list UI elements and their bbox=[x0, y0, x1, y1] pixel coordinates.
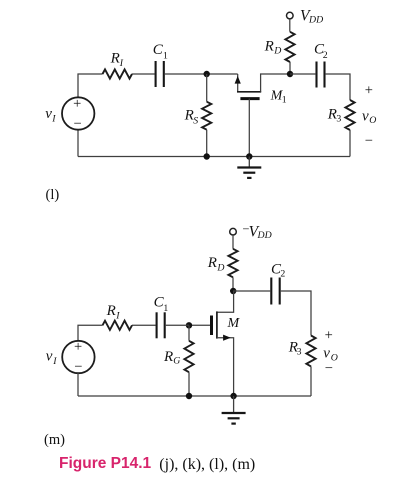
svg-text:D: D bbox=[216, 262, 224, 273]
transistor M drain lead bbox=[217, 291, 234, 312]
svg-text:+: + bbox=[365, 82, 373, 98]
wire RG to bottom rail bbox=[188, 372, 190, 396]
svg-text:+: + bbox=[325, 328, 333, 344]
wire drain node to C2 (circuit l) bbox=[290, 73, 315, 75]
label C1 (circuit l) bbox=[153, 42, 168, 61]
source vI (circuit l) bbox=[62, 96, 94, 132]
svg-text:D: D bbox=[273, 46, 281, 57]
svg-text:S: S bbox=[193, 115, 198, 126]
source vI (circuit m) bbox=[62, 339, 94, 375]
transistor M source lead with arrow bbox=[217, 335, 234, 396]
node dot: RS bottom bbox=[204, 153, 210, 159]
svg-text:v: v bbox=[45, 106, 52, 122]
caption Figure P14.1 bbox=[59, 455, 152, 472]
capacitor C2 (circuit l) bbox=[317, 62, 325, 88]
svg-text:3: 3 bbox=[297, 346, 302, 357]
transistor M1 drain lead bbox=[261, 74, 290, 92]
svg-text:R: R bbox=[184, 108, 194, 124]
resistor RI (circuit l) bbox=[103, 69, 133, 78]
resistor RG bbox=[184, 341, 193, 372]
svg-text:+: + bbox=[73, 96, 81, 112]
svg-text:DD: DD bbox=[308, 14, 323, 25]
wire R3 to bottom rail (circuit m) bbox=[310, 366, 312, 396]
node dot: ground junction (circuit l) bbox=[246, 153, 252, 159]
label (l) bbox=[46, 187, 60, 203]
svg-text:2: 2 bbox=[323, 50, 328, 61]
svg-text:I: I bbox=[115, 311, 120, 322]
svg-text:I: I bbox=[51, 113, 56, 124]
wire C2 to R3 (circuit l) bbox=[326, 74, 350, 100]
svg-text:−: − bbox=[74, 359, 82, 375]
label vI (circuit l) bbox=[45, 106, 56, 124]
wire R3 to bottom rail (circuit l) bbox=[349, 130, 351, 157]
label R3 (circuit l) bbox=[327, 107, 342, 125]
svg-text:−: − bbox=[74, 116, 82, 132]
ground (circuit m) bbox=[222, 396, 246, 424]
label + output (circuit m) bbox=[325, 328, 333, 344]
label R3 (circuit m) bbox=[288, 339, 302, 357]
resistor RD (circuit l) bbox=[285, 32, 294, 62]
label M1 bbox=[270, 88, 287, 105]
capacitor C1 (circuit l) bbox=[156, 61, 164, 87]
transistor M1 channel bbox=[237, 91, 261, 93]
transistor M1 gate lead to ground rail bbox=[248, 99, 250, 157]
svg-text:1: 1 bbox=[163, 303, 168, 314]
transistor M1 source lead with arrow bbox=[235, 74, 241, 92]
wire RI to C1 (circuit l) bbox=[132, 73, 155, 75]
resistor R3 (circuit m) bbox=[306, 336, 315, 367]
wire node to RS bbox=[206, 74, 208, 102]
wire: vI up to top-left corner and to RI (circuit l) bbox=[78, 74, 103, 97]
svg-text:2: 2 bbox=[280, 268, 285, 279]
label vO (circuit m) bbox=[323, 346, 338, 364]
svg-text:(m): (m) bbox=[44, 432, 65, 448]
ground (circuit l) bbox=[237, 157, 261, 178]
svg-text:v: v bbox=[362, 108, 369, 124]
node dot: ground junction (circuit m) bbox=[230, 393, 236, 399]
wire C1 to M1 source (circuit l) bbox=[165, 73, 238, 75]
svg-text:M: M bbox=[227, 316, 241, 331]
node dot: input/RS junction bbox=[204, 71, 210, 77]
wire RS to bottom rail bbox=[206, 130, 208, 157]
label C1 (circuit m) bbox=[154, 295, 169, 314]
svg-text:DD: DD bbox=[257, 230, 272, 241]
svg-text:G: G bbox=[173, 355, 180, 366]
svg-text:I: I bbox=[119, 58, 124, 69]
label RS bbox=[184, 108, 199, 127]
resistor R3 (circuit l) bbox=[345, 100, 354, 130]
svg-text:−: − bbox=[325, 361, 333, 377]
svg-text:O: O bbox=[369, 115, 376, 126]
svg-text:R: R bbox=[207, 255, 217, 271]
wire: vI to bottom-left corner (circuit l) bbox=[77, 130, 79, 157]
svg-text:R: R bbox=[264, 39, 274, 55]
wire vI to bottom rail (circuit m) bbox=[77, 373, 79, 396]
label RI (circuit l) bbox=[110, 50, 124, 69]
label vO (circuit l) bbox=[362, 108, 376, 126]
label -VDD bbox=[242, 222, 271, 241]
svg-text:Figure P14.1: Figure P14.1 bbox=[59, 455, 152, 472]
svg-text:1: 1 bbox=[163, 50, 168, 61]
node dot: RG bottom bbox=[186, 393, 192, 399]
bottom rail (circuit l) bbox=[78, 156, 350, 158]
svg-text:R: R bbox=[106, 303, 116, 319]
wire C1 to gate node (circuit m) bbox=[166, 324, 189, 326]
svg-text:I: I bbox=[52, 356, 57, 367]
svg-text:R: R bbox=[110, 50, 120, 66]
terminal -VDD bbox=[230, 228, 237, 235]
svg-text:v: v bbox=[46, 349, 53, 365]
label - output (circuit l) bbox=[365, 133, 373, 149]
label C2 (circuit m) bbox=[271, 262, 285, 280]
label RI (circuit m) bbox=[106, 303, 121, 322]
caption list (j), (k), (l), (m) bbox=[159, 456, 255, 473]
resistor RD (circuit m) bbox=[228, 249, 237, 277]
svg-text:(j), (k), (l), (m): (j), (k), (l), (m) bbox=[159, 456, 255, 473]
wire gate node to RG bbox=[188, 325, 190, 341]
capacitor C2 (circuit m) bbox=[271, 278, 279, 305]
node dot: drain of M bbox=[230, 288, 236, 294]
svg-text:−: − bbox=[365, 133, 373, 149]
wire -VDD to RD (circuit m) bbox=[232, 235, 234, 249]
wire drain node to C2 (circuit m) bbox=[233, 290, 270, 292]
resistor RI (circuit m) bbox=[103, 321, 133, 330]
label (m) bbox=[44, 432, 65, 448]
label RD (circuit m) bbox=[207, 255, 225, 273]
svg-text:R: R bbox=[163, 349, 173, 365]
wire RI to C1 (circuit m) bbox=[132, 324, 156, 326]
label + output (circuit l) bbox=[365, 82, 373, 98]
node dot: drain of M1 bbox=[287, 71, 293, 77]
transistor M channel bbox=[216, 311, 218, 338]
svg-text:+: + bbox=[74, 339, 82, 355]
wire C2 to R3 (circuit m) bbox=[281, 291, 311, 336]
svg-text:1: 1 bbox=[282, 94, 287, 105]
wire RD to drain node (circuit m) bbox=[232, 277, 234, 291]
bottom rail (circuit m) bbox=[78, 395, 311, 397]
label - output (circuit m) bbox=[325, 361, 333, 377]
terminal VDD bbox=[287, 12, 294, 19]
node dot: gate/RG junction bbox=[186, 322, 192, 328]
wire gate node to gate bar bbox=[189, 324, 210, 326]
label vI (circuit m) bbox=[46, 349, 57, 368]
transistor M gate bar bbox=[210, 316, 213, 336]
label RG bbox=[163, 349, 180, 367]
label VDD bbox=[300, 8, 323, 26]
svg-text:v: v bbox=[323, 346, 330, 362]
label C2 (circuit l) bbox=[314, 42, 328, 61]
svg-text:3: 3 bbox=[336, 114, 341, 125]
label RD (circuit l) bbox=[264, 39, 282, 57]
transistor M1 gate bar bbox=[240, 97, 259, 100]
capacitor C1 (circuit m) bbox=[157, 312, 165, 338]
wire RD to drain node (circuit l) bbox=[289, 62, 291, 74]
svg-text:(l): (l) bbox=[46, 187, 60, 203]
resistor RS bbox=[202, 102, 211, 130]
wire vI to RI (circuit m) bbox=[78, 325, 103, 341]
wire VDD to RD (circuit l) bbox=[289, 19, 291, 32]
label M bbox=[227, 316, 241, 331]
